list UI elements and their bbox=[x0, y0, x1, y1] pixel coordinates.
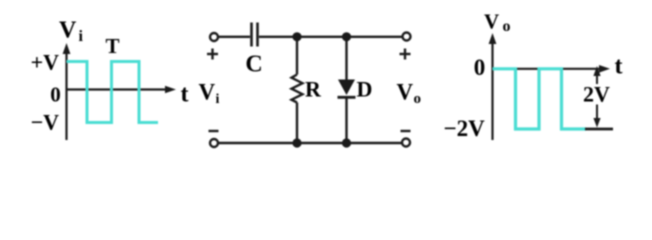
wire node A to node B bbox=[297, 36, 347, 38]
wire bottom rail bbox=[219, 142, 403, 144]
svg-text:R: R bbox=[305, 77, 322, 102]
label + (output terminal) bbox=[400, 49, 411, 60]
wire diode to bottom rail bbox=[345, 97, 347, 143]
wire node B down to diode bbox=[345, 37, 347, 80]
svg-text:t: t bbox=[181, 82, 189, 108]
label Vo (output graph axis) bbox=[484, 10, 511, 36]
axis Vo vertical (output graph) bbox=[489, 33, 497, 140]
svg-text:o: o bbox=[503, 18, 511, 35]
axis Vi vertical (input graph) bbox=[63, 43, 71, 140]
wire node A down to resistor bbox=[296, 37, 298, 75]
label Vi (input graph axis) bbox=[59, 18, 84, 46]
wire capacitor to node A bbox=[259, 36, 297, 38]
wire input terminal to capacitor bbox=[219, 36, 251, 38]
label + (input terminal) bbox=[207, 49, 218, 60]
svg-text:t: t bbox=[615, 54, 623, 80]
terminal output + bbox=[403, 33, 411, 41]
junction node B (top of D) bbox=[342, 32, 351, 41]
terminal output - bbox=[402, 139, 410, 147]
svg-text:i: i bbox=[79, 28, 84, 45]
reference line at -2V level bbox=[585, 128, 613, 131]
output waveform (square wave 0/-2V) bbox=[493, 69, 587, 129]
dimension arrow 2V lower segment bbox=[593, 105, 600, 128]
svg-text:2V: 2V bbox=[583, 82, 610, 107]
resistor R bbox=[292, 75, 303, 103]
svg-text:0: 0 bbox=[50, 83, 61, 107]
wire resistor to bottom rail bbox=[296, 103, 298, 144]
svg-text:o: o bbox=[414, 91, 422, 107]
svg-text:−V: −V bbox=[31, 110, 60, 135]
junction node A (top of R) bbox=[292, 32, 301, 41]
axis t horizontal (input graph) bbox=[67, 86, 177, 94]
junction bottom rail below R bbox=[292, 138, 301, 147]
terminal input - bbox=[210, 139, 218, 147]
capacitor C bbox=[252, 23, 258, 47]
svg-text:V: V bbox=[397, 80, 414, 105]
svg-text:D: D bbox=[357, 77, 373, 102]
svg-text:V: V bbox=[484, 10, 499, 34]
junction bottom rail below D bbox=[342, 138, 351, 147]
label - (input terminal) bbox=[209, 130, 219, 132]
svg-text:V: V bbox=[199, 80, 216, 105]
svg-text:V: V bbox=[59, 18, 77, 44]
label Vo (circuit output voltage) bbox=[397, 80, 422, 108]
wire node B to output terminal bbox=[347, 36, 403, 38]
label Vi (circuit input voltage) bbox=[199, 80, 220, 108]
svg-text:+V: +V bbox=[31, 50, 60, 75]
diode D (cathode down) bbox=[338, 80, 356, 98]
svg-text:T: T bbox=[105, 34, 119, 58]
svg-text:C: C bbox=[245, 52, 262, 78]
dimension arrow 2V upper segment bbox=[593, 66, 600, 84]
svg-text:0: 0 bbox=[474, 55, 486, 80]
svg-text:i: i bbox=[216, 92, 220, 107]
axis t horizontal (output graph) bbox=[493, 65, 611, 73]
terminal input + bbox=[210, 33, 218, 41]
input waveform (square wave +V/-V) bbox=[67, 62, 159, 123]
svg-text:−2V: −2V bbox=[444, 116, 486, 141]
label - (output terminal) bbox=[401, 130, 411, 132]
